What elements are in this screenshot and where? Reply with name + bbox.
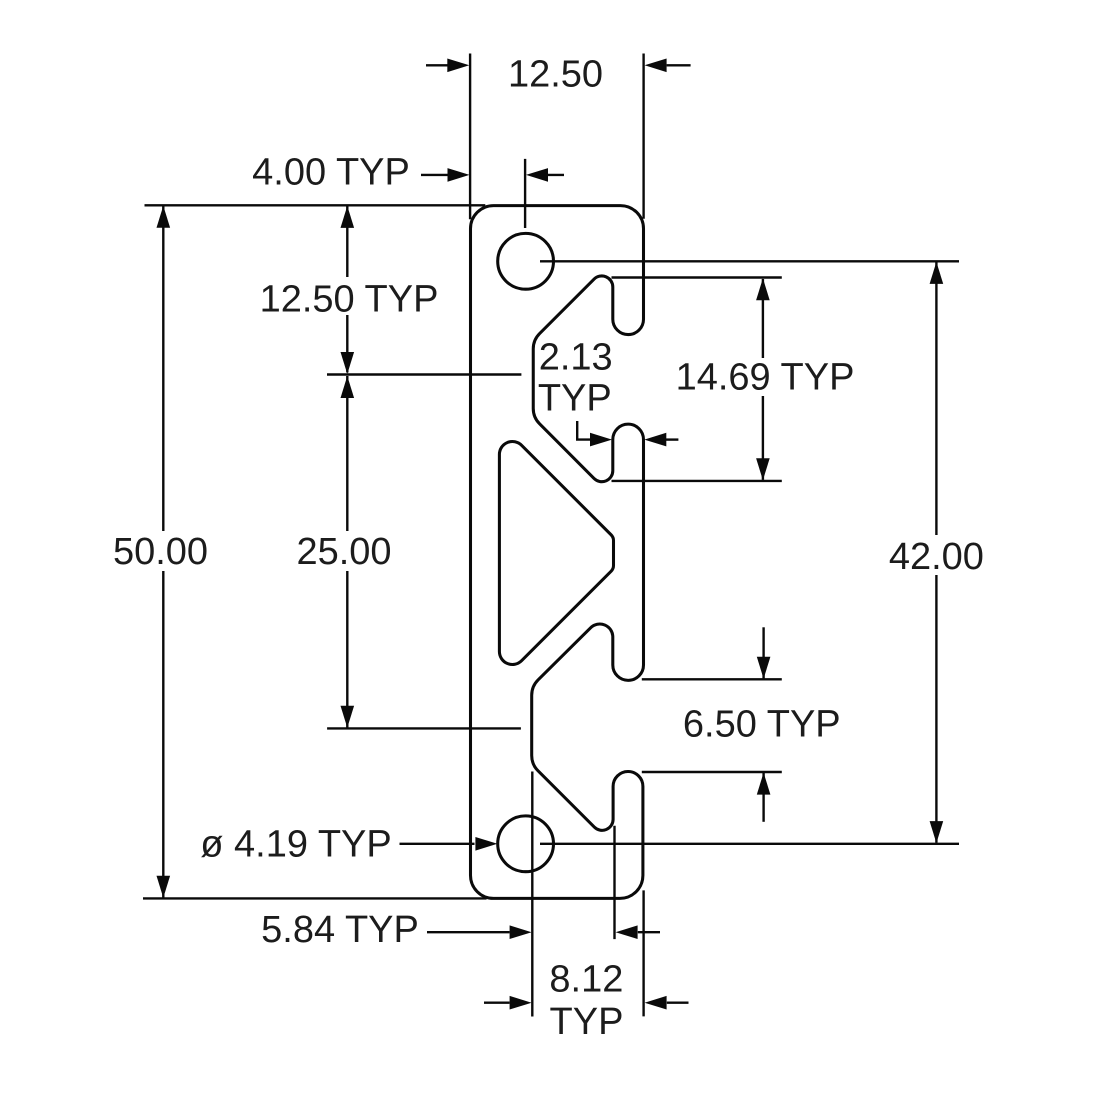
svg-text:6.50 TYP: 6.50 TYP	[683, 704, 841, 746]
bottom mounting hole o4.19	[498, 816, 554, 872]
dimension 50.00 overall height	[113, 205, 487, 898]
triangular lightening cutout	[499, 441, 613, 664]
svg-text:14.69 TYP: 14.69 TYP	[676, 357, 855, 399]
dimension 8.12 TYP wall to right face	[484, 890, 689, 1043]
dimension 12.50 TYP top to slot center	[260, 206, 522, 375]
svg-text:TYP: TYP	[538, 378, 612, 420]
svg-text:42.00: 42.00	[889, 536, 984, 578]
dimension 6.50 TYP slot opening	[642, 627, 841, 822]
svg-text:25.00: 25.00	[296, 531, 391, 573]
dimension 5.84 TYP wall to slot lip	[261, 772, 660, 1017]
svg-text:5.84 TYP: 5.84 TYP	[261, 909, 419, 951]
svg-text:2.13: 2.13	[539, 336, 613, 378]
svg-text:TYP: TYP	[550, 1001, 624, 1043]
dimension 25.00 slot spacing	[296, 376, 520, 728]
svg-text:8.12: 8.12	[549, 959, 623, 1001]
dimension 2.13 TYP web thickness with leader	[538, 336, 679, 446]
svg-text:12.50: 12.50	[508, 53, 603, 95]
svg-text:ø 4.19 TYP: ø 4.19 TYP	[200, 823, 392, 865]
dimension 42.00 hole center spacing	[540, 261, 984, 844]
leader o 4.19 TYP hole diameter	[200, 823, 497, 865]
extrusion profile outer outline	[471, 206, 644, 899]
svg-text:50.00: 50.00	[113, 531, 208, 573]
dimension 4.00 TYP hole offset	[252, 152, 564, 229]
dimension 12.50 overall width	[426, 53, 691, 219]
svg-text:12.50 TYP: 12.50 TYP	[260, 279, 439, 321]
dimension 14.69 TYP slot cavity height	[612, 278, 855, 481]
svg-text:4.00 TYP: 4.00 TYP	[252, 152, 410, 194]
top mounting hole o4.19	[498, 233, 554, 289]
